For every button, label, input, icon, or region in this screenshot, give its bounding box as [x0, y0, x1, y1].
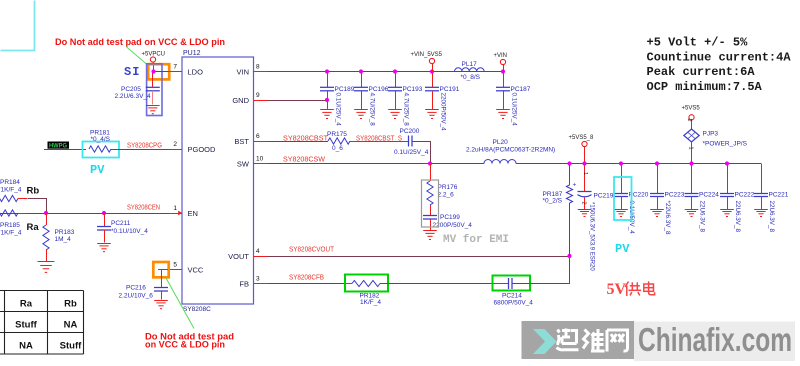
capacitor PC205 [152, 72, 154, 88]
junction on VIN rail at PC193 [393, 69, 397, 73]
ground for PC196 [354, 110, 368, 119]
svg-text:NA: NA [64, 320, 78, 331]
resistor PR187 sense [569, 164, 571, 186]
ground for PC191 [425, 110, 439, 119]
svg-text:8: 8 [256, 63, 260, 70]
svg-text:*0.1U/10V_4: *0.1U/10V_4 [111, 228, 148, 235]
capacitor PC187 [503, 72, 505, 88]
watermark hanzi xun wei wang [557, 329, 628, 352]
svg-text:PR184: PR184 [0, 179, 20, 186]
svg-text:PL17: PL17 [462, 61, 478, 68]
svg-text:10: 10 [256, 155, 264, 162]
junction on VIN rail at PC191 [430, 69, 434, 73]
wire FB segment 2 [380, 283, 509, 285]
watermark light box [634, 322, 795, 362]
wire 5VS5_8 rail [516, 163, 761, 165]
ground for PR183 [38, 262, 55, 273]
ground for PC219 [578, 210, 592, 217]
ground for PC216 [154, 301, 168, 309]
svg-text:PGOOD: PGOOD [188, 145, 217, 154]
capacitor PC216 [161, 270, 163, 288]
svg-text:SY8208CPG: SY8208CPG [127, 143, 162, 150]
resistor PR184 (Rb) [0, 195, 18, 201]
svg-text:BST: BST [234, 137, 249, 146]
wire BST segment 1 [268, 141, 329, 143]
svg-text:2: 2 [686, 119, 692, 122]
svg-text:+5 Volt +/- 5%: +5 Volt +/- 5% [647, 36, 749, 50]
node LDO junction [151, 69, 155, 73]
green highlight box around PC214 [493, 276, 531, 291]
svg-text:Do Not add test pad on VCC & L: Do Not add test pad on VCC & LDO pin [55, 37, 225, 47]
cyan highlight box around PR181 [83, 142, 120, 158]
svg-text:1: 1 [688, 147, 694, 150]
svg-text:+5VS5: +5VS5 [682, 106, 701, 112]
resistor PR175 [328, 138, 350, 144]
wire red stubs in PC214 box [494, 283, 508, 285]
wire EN line [0, 213, 168, 215]
svg-text:*1K/F_4: *1K/F_4 [0, 230, 22, 237]
svg-text:FB: FB [239, 280, 249, 289]
junction on VIN rail at PC196 [359, 69, 363, 73]
ground for PC189 [320, 110, 334, 119]
svg-text:PC219: PC219 [594, 193, 614, 200]
ground for PC224 [685, 210, 699, 217]
capacitor PC193 [395, 72, 397, 88]
svg-text:Countinue current:4A: Countinue current:4A [647, 51, 792, 65]
pin 7 LDO (left) [168, 71, 182, 73]
svg-text:VCC: VCC [188, 266, 204, 275]
svg-text:4.7U/25V_8: 4.7U/25V_8 [402, 93, 409, 127]
pin 8 VIN (right) [254, 71, 268, 73]
ground for PC211 [97, 244, 111, 252]
junction PC220 on rail [619, 161, 623, 165]
svg-text:PR183: PR183 [55, 229, 75, 236]
pin 9 GND (right) [254, 100, 268, 102]
svg-text:HWPG: HWPG [49, 144, 67, 150]
svg-text:OCP minimum:7.5A: OCP minimum:7.5A [647, 80, 763, 94]
svg-text:Stuff: Stuff [60, 341, 82, 352]
svg-text:PL20: PL20 [493, 139, 509, 146]
pin 5 VCC (left) [168, 269, 182, 271]
capacitor PC211 [104, 213, 106, 226]
svg-text:+: + [573, 182, 577, 189]
svg-text:SW: SW [237, 160, 250, 169]
svg-text:2200P/50V_4: 2200P/50V_4 [439, 93, 446, 132]
wire VCC stub inside box [158, 269, 168, 271]
svg-text:NA: NA [19, 341, 33, 352]
gray box around PR176/PC199 [422, 180, 439, 227]
svg-text:4.7U/25V_8: 4.7U/25V_8 [368, 93, 375, 127]
svg-text:PV: PV [90, 163, 105, 177]
pin 1 EN (left) [168, 213, 182, 215]
pin 1 EN input arrow [178, 211, 182, 216]
junction PC219 on rail [582, 161, 586, 165]
inductor PL17 [455, 68, 485, 72]
capacitor PC219 (polarized) [584, 164, 586, 192]
ground for PC223 [650, 210, 664, 217]
svg-text:22U6.3V_8: 22U6.3V_8 [734, 201, 741, 233]
capacitor PC224 [691, 164, 693, 194]
svg-text:*150U6.3V_5X3.9 ESR20: *150U6.3V_5X3.9 ESR20 [589, 202, 595, 271]
svg-text:*1K/F_4: *1K/F_4 [0, 187, 22, 194]
stuffing option table [0, 291, 84, 355]
ground for PC187 [496, 110, 510, 119]
svg-text:PC214: PC214 [502, 293, 522, 300]
ground for PC199 [423, 231, 437, 240]
svg-text:EN: EN [188, 209, 198, 218]
svg-text:PC211: PC211 [111, 220, 131, 227]
svg-text:SY8208CVOUT: SY8208CVOUT [289, 247, 335, 254]
capacitor PC200 [409, 136, 413, 147]
watermark dark box [522, 321, 635, 359]
svg-text:SY8208C: SY8208C [183, 306, 211, 313]
capacitor PC199 [430, 205, 432, 216]
green highlight box around PR182 [345, 275, 388, 292]
svg-text:2.2U/6.3V_4: 2.2U/6.3V_4 [115, 93, 152, 100]
watermark cyan chevron [533, 329, 557, 354]
wire FB segment 3 up to VOUT node [513, 257, 570, 284]
svg-text:PJP3: PJP3 [703, 131, 719, 138]
svg-text:2: 2 [581, 202, 587, 205]
svg-text:PU12: PU12 [183, 50, 201, 57]
inductor PL20 [484, 160, 516, 164]
svg-text:VIN: VIN [236, 68, 249, 77]
op-amp regulator IC PU12 box [182, 57, 254, 304]
svg-text:Chinafix.com: Chinafix.com [638, 321, 792, 358]
junction PC211 node [102, 211, 106, 215]
svg-text:Peak current:6A: Peak current:6A [647, 65, 756, 79]
orange highlight box on LDO pin [148, 64, 169, 79]
svg-text:PC223: PC223 [665, 192, 685, 199]
svg-text:PR175: PR175 [327, 131, 347, 138]
svg-text:0_6: 0_6 [332, 145, 343, 152]
resistor PR185 (Ra) [0, 210, 18, 216]
svg-text:Ra: Ra [27, 222, 40, 233]
svg-text:0.1U/25V_4: 0.1U/25V_4 [334, 93, 341, 127]
svg-text:SI: SI [124, 65, 140, 79]
junction on VIN rail at PC189 [325, 69, 329, 73]
ground for PC221 [754, 210, 768, 217]
svg-text:9: 9 [256, 92, 260, 99]
svg-text:*22U6.3V_8: *22U6.3V_8 [664, 201, 671, 235]
svg-text:*0_8/S: *0_8/S [461, 74, 481, 81]
junction VOUT/FB/PR187 node [567, 254, 571, 258]
ground for PC205 [146, 106, 160, 114]
svg-text:MV for EMI: MV for EMI [443, 234, 509, 246]
svg-text:5V: 5V [607, 281, 627, 298]
svg-text:Rb: Rb [64, 299, 77, 310]
ground for PC222 [720, 210, 734, 217]
wire PGOOD from HWPG [44, 149, 86, 151]
wire LDO pin7 to PC205 node [154, 71, 169, 73]
capacitor PC196 [361, 72, 363, 88]
net HWPG inverted label [48, 142, 70, 149]
orange highlight box on VCC pin [153, 262, 168, 277]
svg-text:6: 6 [256, 133, 260, 140]
svg-text:1: 1 [173, 205, 177, 212]
svg-text:PC221: PC221 [769, 192, 789, 199]
svg-text:on VCC & LDO pin: on VCC & LDO pin [145, 340, 225, 350]
svg-text:0.1U/25V_4: 0.1U/25V_4 [510, 93, 517, 127]
svg-text:SY8208CEN: SY8208CEN [127, 205, 160, 212]
junction SW/BST node [428, 161, 432, 165]
svg-text:LDO: LDO [188, 68, 204, 77]
svg-text:1: 1 [582, 172, 588, 175]
wire SW rail to PL20 [268, 163, 485, 165]
svg-text:PC224: PC224 [699, 192, 719, 199]
svg-text:Rb: Rb [27, 186, 40, 197]
junction PC224 on rail [689, 161, 693, 165]
capacitor PC221 [761, 164, 763, 194]
capacitor PC189 [327, 72, 329, 88]
green leader line from warning text to PC205 [126, 47, 147, 65]
wire PR181 to PGOOD pin [111, 149, 168, 151]
svg-text:PR176: PR176 [438, 184, 458, 191]
svg-text:*0_2/S: *0_2/S [543, 198, 563, 205]
pin 3 FB (right) [254, 283, 268, 285]
capacitor PC223 [657, 164, 659, 194]
resistor PR182 [352, 280, 380, 286]
junction PC223 on rail [655, 161, 659, 165]
svg-text:+VIN_5VS5: +VIN_5VS5 [411, 52, 443, 58]
svg-text:3: 3 [256, 275, 260, 282]
wire GND pin9 [268, 100, 328, 102]
wire PC200 to SW node [413, 142, 431, 164]
pin 2 PGOOD (left) [168, 149, 182, 151]
svg-text:PC200: PC200 [400, 128, 420, 135]
junction Rb/PR183 node [44, 211, 48, 215]
green leader line to bottom warning [166, 278, 194, 329]
svg-text:2.2_6: 2.2_6 [438, 192, 455, 199]
svg-text:*0_4/S: *0_4/S [91, 136, 111, 143]
svg-text:*POWER_JP/S: *POWER_JP/S [703, 141, 748, 148]
svg-text:7: 7 [173, 63, 177, 70]
wire VIN rail [268, 71, 504, 73]
svg-text:2: 2 [173, 141, 177, 148]
wire rail corner down to PC221 [761, 164, 763, 184]
svg-text:SY8208CFB: SY8208CFB [289, 275, 324, 282]
svg-text:1M_4: 1M_4 [55, 236, 72, 243]
svg-text:Ra: Ra [20, 299, 33, 310]
svg-text:VOUT: VOUT [228, 252, 249, 261]
pin 10 SW (right) [254, 163, 268, 165]
ground for PC220 [614, 210, 628, 217]
resistor PR183 [46, 213, 48, 225]
svg-text:0.1U/25V_4: 0.1U/25V_4 [394, 149, 429, 156]
svg-text:5: 5 [173, 261, 177, 268]
ground for PC193 [388, 110, 402, 119]
junction PR187 top on rail [567, 161, 571, 165]
resistor PR176 (snubber) [430, 164, 432, 182]
svg-text:PC216: PC216 [126, 285, 146, 292]
svg-text:+VIN: +VIN [494, 53, 508, 59]
svg-text:22U6.3V_8: 22U6.3V_8 [699, 201, 706, 233]
svg-text:PV: PV [615, 242, 630, 256]
resistor PR181 [89, 146, 111, 152]
junction on VIN rail at PC187 [501, 69, 505, 73]
svg-text:PC205: PC205 [121, 86, 141, 93]
svg-text:SY8208CSW: SY8208CSW [283, 157, 325, 164]
svg-text:Stuff: Stuff [15, 320, 37, 331]
wire FB line segment 1 [268, 283, 353, 285]
pin 4 VOUT (right) [254, 256, 268, 258]
wire red stubs in PR182 box [346, 283, 352, 285]
blue highlight box around PC205 [147, 64, 162, 116]
capacitor PC191 [432, 72, 434, 88]
pin 6 BST (right) [254, 141, 268, 143]
svg-text:+5VS5_8: +5VS5_8 [569, 135, 595, 141]
svg-text:1K/F_4: 1K/F_4 [360, 299, 381, 306]
svg-text:6800P/50V_4: 6800P/50V_4 [494, 300, 534, 307]
svg-text:PC199: PC199 [440, 214, 460, 221]
svg-text:4: 4 [256, 248, 260, 255]
capacitor PC220 [621, 164, 623, 194]
capacitor PC222 [727, 164, 729, 194]
wire BST segment 2 [350, 141, 408, 143]
junction PC222 on rail [725, 161, 729, 165]
svg-text:22U6.3V_8: 22U6.3V_8 [768, 201, 775, 233]
svg-text:2.2U/10V_6: 2.2U/10V_6 [119, 293, 154, 300]
cyan highlight box corner (top-left) [1, 1, 35, 51]
capacitor PC214 [509, 278, 513, 289]
svg-text:PR185: PR185 [0, 222, 20, 229]
wire Rb branch [28, 199, 47, 214]
svg-text:2.2uH/8A(PCMC063T-2R2MN): 2.2uH/8A(PCMC063T-2R2MN) [466, 147, 555, 154]
svg-text:GND: GND [232, 96, 249, 105]
cyan highlight box around PC220 [614, 177, 632, 220]
svg-text:PC222: PC222 [735, 192, 755, 199]
wire VOUT line [268, 256, 570, 258]
junction GND line to PC189 [325, 98, 329, 102]
